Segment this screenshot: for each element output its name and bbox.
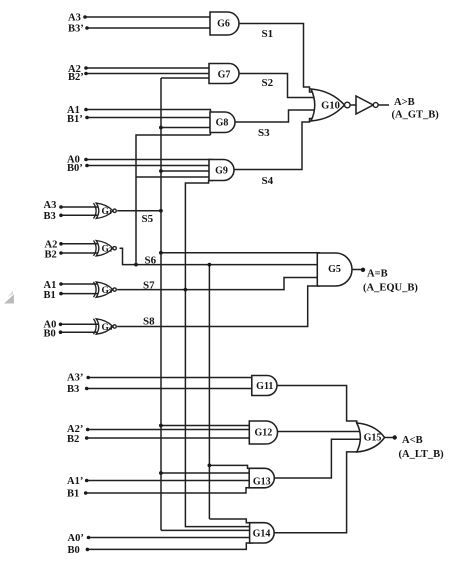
svg-text:A3: A3: [44, 200, 57, 211]
svg-text:G15: G15: [364, 433, 382, 444]
svg-text:B1: B1: [44, 290, 56, 301]
svg-text:B0’: B0’: [67, 163, 83, 174]
svg-text:B3: B3: [44, 211, 56, 222]
svg-text:S7: S7: [143, 279, 155, 291]
svg-text:S6: S6: [145, 255, 157, 267]
svg-text:S2: S2: [262, 77, 274, 89]
svg-text:S5: S5: [142, 213, 154, 225]
svg-text:A<B: A<B: [402, 435, 423, 446]
svg-text:G13: G13: [253, 477, 271, 488]
svg-text:B0: B0: [68, 545, 80, 556]
svg-text:G7: G7: [218, 69, 231, 80]
svg-text:G2: G2: [102, 244, 113, 254]
svg-text:A=B: A=B: [367, 268, 388, 279]
svg-text:S3: S3: [258, 127, 270, 139]
svg-text:G11: G11: [256, 381, 273, 392]
svg-text:(A_LT_B): (A_LT_B): [399, 449, 445, 460]
svg-text:G12: G12: [255, 428, 273, 439]
svg-text:S4: S4: [262, 175, 274, 187]
svg-text:A3: A3: [68, 13, 81, 24]
svg-text:B1: B1: [67, 489, 79, 500]
svg-text:G10: G10: [321, 101, 340, 112]
svg-text:G4: G4: [102, 323, 113, 333]
svg-text:S1: S1: [262, 28, 274, 40]
svg-text:B2: B2: [45, 250, 57, 261]
svg-text:B1’: B1’: [67, 114, 83, 125]
svg-text:G1: G1: [102, 207, 113, 217]
svg-text:A>B: A>B: [394, 97, 415, 108]
svg-text:B3’: B3’: [68, 24, 84, 35]
svg-text:S8: S8: [143, 316, 155, 328]
svg-text:B2’: B2’: [68, 72, 84, 83]
svg-text:A1’: A1’: [67, 476, 83, 487]
svg-text:B0: B0: [44, 329, 56, 340]
svg-text:G3: G3: [102, 286, 113, 296]
svg-text:G14: G14: [253, 529, 271, 540]
svg-text:G8: G8: [216, 118, 229, 129]
svg-text:A0’: A0’: [68, 533, 84, 544]
svg-text:(A_EQU_B): (A_EQU_B): [363, 283, 418, 294]
svg-text:G9: G9: [215, 165, 228, 176]
svg-text:G5: G5: [328, 264, 341, 275]
svg-text:(A_GT_B): (A_GT_B): [392, 110, 440, 121]
svg-text:A3’: A3’: [67, 373, 83, 384]
svg-text:G6: G6: [217, 19, 230, 30]
svg-text:B3: B3: [67, 384, 79, 395]
svg-text:B2: B2: [67, 434, 79, 445]
